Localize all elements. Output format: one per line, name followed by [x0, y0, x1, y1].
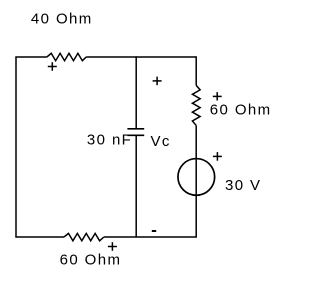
resistor R1 40 Ohm (top) — [47, 53, 86, 60]
svg-text:30 nF: 30 nF — [87, 132, 132, 149]
wire top-left segment — [15, 56, 47, 58]
polarity + of Vc — [153, 77, 162, 86]
svg-text:30 V: 30 V — [225, 177, 261, 194]
polarity + of R2 — [213, 92, 222, 100]
wire top-right segment — [86, 56, 196, 58]
svg-text:40 Ohm: 40 Ohm — [31, 11, 93, 28]
capacitor C1 30 nF plates — [127, 129, 144, 136]
wire middle branch lower — [135, 135, 137, 237]
wire bottom-right segment — [104, 236, 197, 238]
polarity + of R1 — [48, 62, 57, 71]
wire middle branch upper — [135, 56, 137, 128]
voltage source V1 circle — [178, 159, 215, 196]
wire right upper segment — [195, 56, 197, 85]
polarity + of V1 — [213, 152, 222, 161]
wire right lower segment (passes through source) — [195, 125, 197, 237]
wire bottom-left segment — [15, 236, 64, 238]
polarity + of R3 — [108, 242, 117, 251]
svg-text:60 Ohm: 60 Ohm — [210, 102, 272, 119]
resistor R3 60 Ohm (bottom) — [64, 233, 104, 240]
polarity - of Vc (bottom node) — [152, 230, 156, 232]
svg-text:60 Ohm: 60 Ohm — [60, 252, 122, 269]
resistor R2 60 Ohm (right, vertical) — [192, 85, 200, 125]
wire left side — [15, 57, 17, 237]
svg-text:Vc: Vc — [151, 133, 171, 150]
